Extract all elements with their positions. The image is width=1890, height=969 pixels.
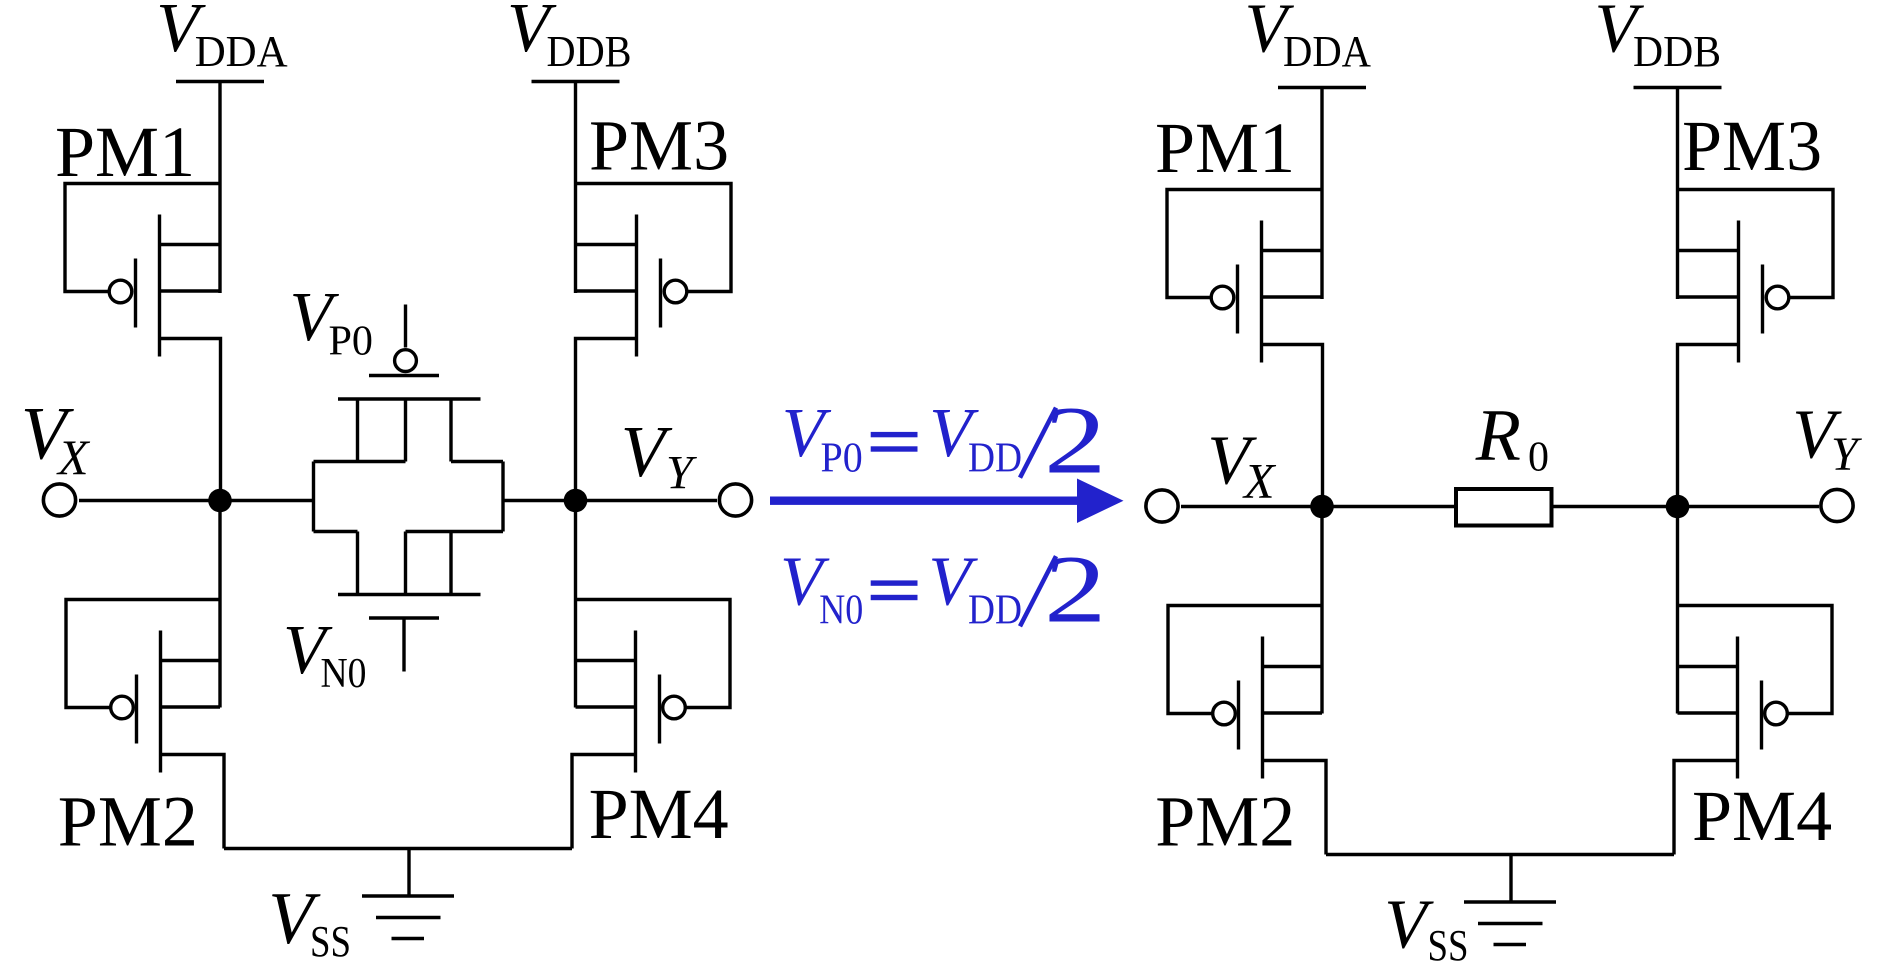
- transistor PM2 (right): bulk stub: [1263, 711, 1323, 714]
- transistor PM3 (left): gate-tie wire: [576, 184, 732, 292]
- svg-text:PM3: PM3: [1682, 106, 1822, 186]
- transmission gate PMOS: gate bar: [369, 374, 439, 377]
- transistor PM4 (right): gate bubble: [1765, 702, 1788, 725]
- transistor PM2 (left): gate bubble: [111, 696, 134, 719]
- transistor PM1 (right): drain wire: [1262, 345, 1323, 507]
- transistor PM4 (right): channel bar: [1736, 637, 1739, 779]
- svg-text:0: 0: [1528, 435, 1549, 481]
- svg-text:PM1: PM1: [55, 112, 195, 192]
- VDDA supply rail bar (left): [176, 80, 264, 83]
- label VY (left): [621, 411, 697, 500]
- transmission gate NMOS: bulk stub: [404, 532, 407, 595]
- label VY (right): [1792, 397, 1862, 482]
- label VDDA (right): [1245, 0, 1372, 76]
- svg-text:Y: Y: [1831, 428, 1862, 481]
- label VDDB (left): [507, 0, 632, 76]
- svg-text:DDA: DDA: [1283, 27, 1371, 76]
- svg-text:DDB: DDB: [547, 27, 632, 76]
- svg-text:2: 2: [1044, 388, 1106, 494]
- svg-text:SS: SS: [1428, 921, 1469, 969]
- transistor PM4 (left): source stub: [576, 659, 636, 662]
- bottom wire PM2-PM4 (right): [1326, 853, 1674, 856]
- svg-text:X: X: [1242, 453, 1277, 509]
- terminal VX (left): [43, 484, 75, 516]
- svg-text:DDA: DDA: [195, 27, 288, 76]
- svg-text:PM2: PM2: [58, 782, 198, 862]
- transistor PM2 (right): gate bar: [1237, 681, 1240, 750]
- VDDB supply wire (right): [1676, 88, 1679, 300]
- VDDA supply wire (left): [218, 82, 221, 294]
- label VX (left): [21, 392, 91, 485]
- transistor PM3 (right): drain wire: [1678, 345, 1739, 507]
- node VY junction dot (right): [1666, 495, 1690, 519]
- transistor PM1 (right): gate bubble: [1211, 286, 1234, 309]
- svg-text:PM4: PM4: [1692, 776, 1832, 856]
- transmission gate PMOS: right stub: [449, 399, 452, 462]
- svg-text:PM3: PM3: [589, 106, 729, 186]
- wire VY node down to PM4 (left): [574, 501, 577, 708]
- label VP0: [290, 279, 374, 365]
- wire VX terminal to resistor (right): [1181, 505, 1456, 508]
- transistor PM1 (right): gate bar: [1236, 265, 1239, 334]
- VDDA supply wire (right): [1320, 88, 1323, 300]
- transistor PM3 (right): channel bar: [1737, 221, 1740, 363]
- wire resistor to VY terminal (right): [1552, 505, 1820, 508]
- node VX junction dot (left): [208, 489, 232, 513]
- transistor PM4 (left): gate bar: [658, 675, 661, 744]
- transistor PM4 (left): gate-tie wire: [576, 600, 731, 708]
- transmission gate: top-right source/drain wire: [451, 460, 503, 463]
- label VDDB (right): [1595, 0, 1722, 76]
- transistor PM2 (left): bulk stub: [161, 705, 221, 708]
- transistor PM1 (left): gate bar: [134, 259, 137, 328]
- transistor PM1 (left): source stub: [160, 243, 221, 246]
- transmission gate: top-left source/drain wire: [314, 460, 406, 463]
- transistor PM3 (left): gate bubble: [664, 280, 687, 303]
- VDDA supply rail bar (right): [1278, 86, 1366, 89]
- transistor PM2 (right): drain wire: [1263, 761, 1327, 855]
- node VY junction dot (left): [564, 489, 588, 513]
- transistor PM4 (left): bulk stub: [576, 705, 636, 708]
- label VX (right): [1207, 423, 1277, 509]
- svg-text:P0: P0: [329, 319, 374, 365]
- transmission gate NMOS: gate bar: [369, 616, 439, 619]
- transistor PM2 (left): channel bar: [159, 631, 162, 773]
- transistor PM2 (left): source stub: [161, 659, 221, 662]
- svg-text:PM2: PM2: [1155, 782, 1295, 862]
- svg-text:R: R: [1475, 395, 1521, 477]
- terminal VX (right): [1146, 490, 1178, 522]
- transistor PM2 (right): gate bubble: [1213, 702, 1236, 725]
- transistor PM3 (right): bulk stub: [1678, 295, 1739, 298]
- blue annotation VN0 = VDD/2: [780, 537, 1106, 643]
- transistor PM4 (left): gate bubble: [663, 696, 686, 719]
- label VSS (right): [1384, 887, 1468, 969]
- ground symbol VSS (right): [1464, 855, 1556, 945]
- transistor PM4 (right): gate bar: [1760, 681, 1763, 750]
- transmission gate: bottom-left source/drain wire: [314, 530, 358, 533]
- node VX junction dot (right): [1310, 495, 1334, 519]
- transistor PM1 (left): bulk stub: [160, 289, 221, 292]
- transistor PM3 (right): gate bubble: [1766, 286, 1789, 309]
- transistor PM4 (left): channel bar: [634, 631, 637, 773]
- transmission gate NMOS: channel bar: [338, 593, 481, 596]
- terminal VY (right): [1821, 489, 1853, 521]
- svg-text:X: X: [56, 429, 91, 485]
- transmission gate NMOS: left stub: [356, 532, 359, 595]
- svg-text:PM1: PM1: [1155, 108, 1295, 188]
- label R0: [1475, 395, 1549, 481]
- blue arrow: [770, 479, 1124, 524]
- transistor PM1 (left): gate bubble: [109, 280, 132, 303]
- transmission gate: bottom-right source/drain wire: [406, 530, 504, 533]
- svg-text:Y: Y: [666, 447, 697, 500]
- transistor PM3 (right): gate-tie wire: [1678, 190, 1834, 298]
- transistor PM1 (left): gate-tie wire: [65, 184, 220, 292]
- wire VY node down to PM4 (right): [1676, 507, 1679, 714]
- wire VX node down to PM2 (right): [1320, 507, 1323, 714]
- svg-text:SS: SS: [310, 917, 351, 966]
- transistor PM3 (left): channel bar: [635, 215, 638, 357]
- pin VN0 gate lead: [402, 618, 405, 672]
- transistor PM3 (right): gate bar: [1761, 265, 1764, 334]
- transmission gate: left terminal edge: [312, 462, 315, 532]
- transistor PM1 (left): channel bar: [158, 215, 161, 357]
- transistor PM3 (right): source stub: [1678, 249, 1739, 252]
- svg-text:V: V: [621, 411, 673, 492]
- transistor PM1 (right): channel bar: [1260, 221, 1263, 363]
- transistor PM4 (right): drain wire: [1674, 761, 1738, 855]
- resistor R0 body: [1456, 489, 1552, 526]
- transistor PM3 (left): gate bar: [659, 259, 662, 328]
- transistor PM4 (right): bulk stub: [1678, 711, 1738, 714]
- terminal VY (left): [719, 484, 751, 516]
- ground symbol VSS (left): [362, 849, 454, 939]
- label VSS (left): [268, 878, 351, 966]
- svg-text:DD: DD: [968, 436, 1022, 482]
- svg-text:N0: N0: [819, 588, 863, 634]
- svg-text:DDB: DDB: [1633, 27, 1721, 76]
- transistor PM2 (right): source stub: [1263, 665, 1323, 668]
- transistor PM4 (left): drain wire: [572, 755, 636, 849]
- transistor PM1 (right): source stub: [1262, 249, 1323, 252]
- svg-text:DD: DD: [968, 588, 1022, 634]
- svg-text:2: 2: [1044, 537, 1106, 643]
- label VN0: [283, 612, 367, 697]
- VDDB supply wire (left): [574, 82, 577, 294]
- blue annotation VP0 = VDD/2: [782, 388, 1107, 494]
- bottom wire PM2-PM4 (left): [224, 847, 572, 850]
- transistor PM2 (right): gate-tie wire: [1168, 606, 1322, 714]
- transistor PM2 (right): channel bar: [1261, 637, 1264, 779]
- label VDDA (left): [156, 0, 288, 76]
- svg-text:PM4: PM4: [589, 774, 729, 854]
- wire transmission gate to VY terminal (left): [503, 499, 717, 502]
- wire VX terminal to transmission gate (left): [79, 499, 314, 502]
- transistor PM2 (left): gate-tie wire: [66, 600, 220, 708]
- transmission gate PMOS: left stub: [356, 399, 359, 462]
- transistor PM4 (right): source stub: [1678, 665, 1738, 668]
- transmission gate NMOS: right stub: [449, 532, 452, 595]
- transistor PM3 (left): bulk stub: [576, 289, 637, 292]
- wire VX node down to PM2 (left): [218, 501, 221, 708]
- transistor PM1 (left): drain wire: [160, 339, 221, 501]
- transistor PM4 (right): gate-tie wire: [1678, 606, 1833, 714]
- svg-text:P0: P0: [821, 436, 863, 482]
- VDDB supply rail bar (right): [1634, 86, 1722, 89]
- svg-text:N0: N0: [321, 651, 367, 697]
- VDDB supply rail bar (left): [532, 80, 620, 83]
- transmission gate PMOS: bulk stub: [404, 399, 407, 462]
- transistor PM2 (left): drain wire: [161, 755, 225, 849]
- transistor PM3 (left): source stub: [576, 243, 637, 246]
- transistor PM2 (left): gate bar: [135, 675, 138, 744]
- transistor PM1 (right): bulk stub: [1262, 295, 1323, 298]
- transistor PM1 (right): gate-tie wire: [1167, 190, 1322, 298]
- transmission gate PMOS: gate bubble: [395, 350, 417, 372]
- transmission gate: right terminal edge: [501, 462, 504, 532]
- transistor PM3 (left): drain wire: [576, 339, 637, 501]
- pin VP0 gate lead: [404, 305, 407, 348]
- transmission gate PMOS: channel bar: [338, 397, 481, 400]
